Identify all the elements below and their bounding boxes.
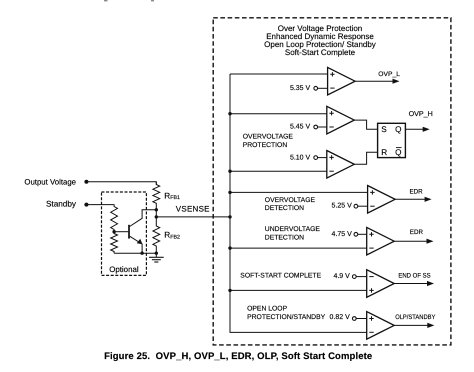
dashed enclosure box (function block) [213, 18, 451, 345]
dashed box Optional [102, 192, 147, 275]
op-amp comparator U1 (5.35V OVP_L) [328, 67, 356, 95]
label OVERVOLTAGE PROTECTION [243, 134, 294, 149]
svg-text:Figure 25. OVP_H, OVP_L, EDR,: Figure 25. OVP_H, OVP_L, EDR, OLP, Soft … [104, 351, 372, 362]
wire Output Voltage to RFB1 [86, 182, 156, 185]
wire comparator2 to latch S [354, 120, 377, 129]
wire rail to comparator5 - input [228, 246, 366, 249]
svg-text:OVERVOLTAGE: OVERVOLTAGE [265, 197, 316, 204]
label OVERVOLTAGE DETECTION [265, 197, 316, 212]
resistor divider upper (in Optional box) [111, 205, 118, 232]
reference terminal 4.9V [352, 275, 366, 279]
reference terminal 4.75V [354, 232, 367, 236]
wire rail to comparator4 + input [228, 191, 367, 194]
op-amp comparator U8 (0.82V OLP) [367, 312, 395, 340]
svg-text:UNDERVOLTAGE: UNDERVOLTAGE [265, 226, 321, 233]
op-amp comparator U3 (5.10V) [327, 151, 355, 179]
reference terminal 0.82V [352, 317, 366, 321]
svg-text:Q: Q [395, 148, 401, 157]
svg-text:OVP_H: OVP_H [409, 111, 433, 118]
svg-text:Output Voltage: Output Voltage [24, 178, 76, 187]
ground symbol [149, 253, 164, 262]
header title text [264, 24, 376, 57]
wire OLP/STANDBY output with arrowhead [394, 323, 434, 328]
svg-text:EDR: EDR [410, 229, 423, 236]
reference terminal 5.35V [314, 86, 328, 90]
reference terminal 5.25V [354, 204, 368, 208]
svg-text:5.25 V: 5.25 V [332, 203, 353, 210]
reference terminal 5.45V [314, 125, 327, 129]
wire OVP_L output with arrowhead [355, 79, 399, 84]
node divider mid junction [112, 230, 115, 233]
wire rail to comparator6 + input [228, 289, 366, 292]
reference terminal 5.10V [314, 156, 327, 160]
svg-text:5.10 V: 5.10 V [290, 154, 311, 161]
resistor divider lower (in Optional box) [111, 232, 118, 254]
op-amp comparator U7 (4.9V END OF SS) [367, 270, 395, 298]
svg-text:Soft-Start Complete: Soft-Start Complete [285, 48, 356, 57]
node junction RFB1/collector [155, 208, 158, 211]
svg-text:OVERVOLTAGE: OVERVOLTAGE [243, 134, 294, 141]
wire rail to comparator1 + input [230, 73, 328, 75]
op-amp comparator U2 (5.45V) [327, 106, 355, 134]
wire EDR2 output with arrowhead [394, 239, 433, 244]
wire between junctions [155, 210, 157, 217]
op-amp comparator U6 (4.75V EDR) [367, 227, 395, 255]
svg-text:DETECTION: DETECTION [265, 205, 304, 212]
SR latch U4 [378, 123, 406, 157]
svg-text:OLP/STANDBY: OLP/STANDBY [395, 314, 436, 321]
wire base [114, 231, 128, 233]
svg-text:Standby: Standby [46, 200, 77, 209]
svg-text:OPEN LOOP: OPEN LOOP [247, 305, 288, 312]
wire VSENSE vertical rail [230, 74, 367, 332]
svg-text:PROTECTION/STANDBY: PROTECTION/STANDBY [247, 314, 326, 321]
resistor RFB1 [153, 182, 160, 210]
svg-text:Q: Q [395, 125, 401, 134]
svg-text:DETECTION: DETECTION [265, 235, 304, 242]
node emitter/rail junction [140, 252, 143, 255]
svg-text:4.9 V: 4.9 V [333, 273, 350, 280]
svg-text:5.45 V: 5.45 V [290, 124, 311, 131]
svg-text:END OF SS: END OF SS [398, 273, 431, 280]
node Output Voltage [24, 178, 88, 187]
svg-text:Optional: Optional [109, 265, 139, 274]
node Standby [46, 200, 88, 209]
resistor RFB2 [153, 217, 160, 253]
wire VSENSE to rail [156, 216, 230, 218]
stray cropped glyph marks top edge [104, 0, 108, 1]
wire END OF SS output with arrowhead [394, 281, 434, 286]
label OPEN LOOP PROTECTION/STANDBY [247, 305, 326, 321]
svg-text:0.82 V: 0.82 V [330, 314, 351, 321]
svg-text:5.35 V: 5.35 V [290, 85, 311, 92]
label UNDERVOLTAGE DETECTION [265, 226, 321, 242]
wire Standby to divider [86, 204, 113, 206]
node junction RFB2/ground [155, 252, 158, 255]
svg-text:S: S [381, 125, 387, 134]
wire rail to comparator2 + input [228, 112, 326, 115]
svg-text:VSENSE: VSENSE [176, 205, 210, 214]
node rail/VSENSE junction [228, 215, 231, 218]
svg-text:R: R [381, 148, 387, 157]
svg-text:OVP_L: OVP_L [378, 71, 400, 78]
label RFB2 [164, 231, 180, 241]
wire comparator3 to latch R [354, 152, 377, 164]
svg-text:4.75 V: 4.75 V [332, 231, 353, 238]
wire OVP_H output with arrowhead [405, 127, 429, 132]
svg-text:EDR: EDR [410, 189, 423, 196]
wire bottom rail of divider [114, 252, 156, 254]
svg-text:PROTECTION: PROTECTION [243, 142, 288, 149]
op-amp comparator U5 (5.25V EDR) [368, 186, 396, 214]
svg-text:SOFT-START COMPLETE: SOFT-START COMPLETE [240, 273, 321, 280]
node junction VSENSE tap [155, 215, 158, 218]
wire rail to comparator3 - input [228, 170, 326, 173]
label RFB1 [164, 191, 180, 201]
transistor Q1 (NPN) [129, 210, 156, 253]
wire EDR1 output with arrowhead [395, 197, 432, 202]
